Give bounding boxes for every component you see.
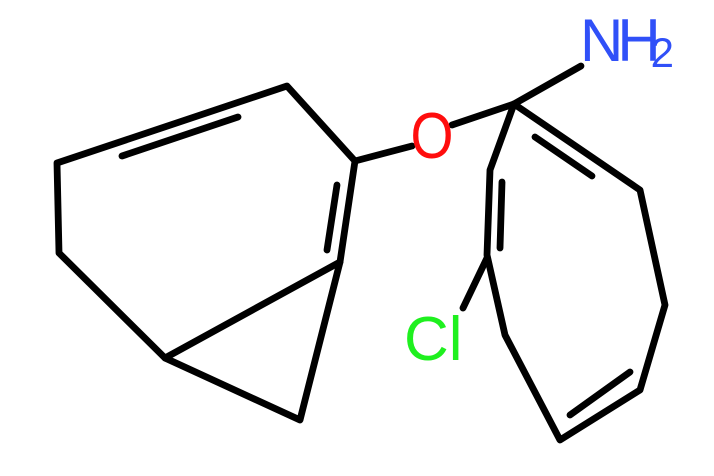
right ring inner stroke 2 (left edge) <box>500 182 502 248</box>
left ring inner stroke 3 (right edge) <box>327 185 337 250</box>
left ring outer <box>57 86 355 420</box>
wire O-J bond <box>452 104 514 125</box>
svg-text:O: O <box>411 99 454 172</box>
right ring inner stroke 3 (bottom edge) <box>570 372 630 415</box>
right ring inner stroke 1 (top-right edge) <box>535 137 592 176</box>
right ring outer <box>487 104 665 440</box>
svg-text:Cl: Cl <box>404 305 463 374</box>
wire O-V1 bond <box>355 146 412 161</box>
wire NH2 bond <box>514 66 581 104</box>
left ring fusion diagonal W-Y <box>165 262 340 358</box>
svg-text:NH2: NH2 <box>580 7 673 76</box>
Cl bond <box>463 258 487 308</box>
left ring inner stroke 1 (top-left edge) <box>122 117 238 156</box>
